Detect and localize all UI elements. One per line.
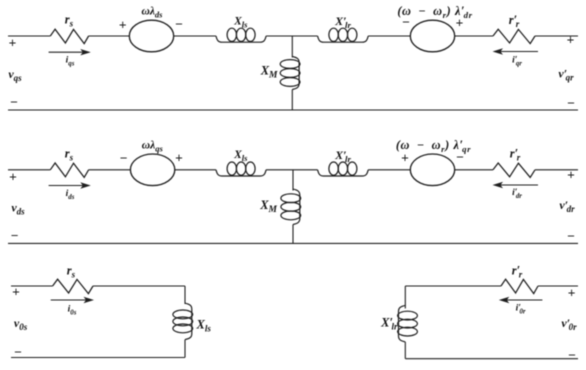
wire, right side lower (zero-seq stator) bbox=[184, 340, 186, 358]
svg-text:i′dr: i′dr bbox=[512, 188, 522, 200]
svg-text:+: + bbox=[119, 18, 127, 33]
wire, d-axis bottom rail bbox=[8, 242, 578, 244]
svg-text:X′lr: X′lr bbox=[380, 316, 398, 332]
wire, magnetizing branch lower (q-axis) bbox=[291, 90, 293, 111]
svg-text:iqs: iqs bbox=[66, 56, 75, 68]
wire, r'_r to q-axis rotor terminal bbox=[535, 35, 578, 37]
current arrow i_0s bbox=[51, 297, 94, 303]
wire, left side lower (zero-seq rotor) bbox=[404, 342, 406, 359]
wire, source to X_ls bbox=[174, 35, 216, 37]
svg-text:(ω − ωr) λ′dr: (ω − ωr) λ′dr bbox=[397, 4, 472, 20]
svg-text:+: + bbox=[175, 151, 183, 166]
inductor X_M (d-axis magnetizing) bbox=[281, 189, 301, 224]
current arrow i'_qr bbox=[493, 48, 539, 54]
svg-text:+: + bbox=[9, 36, 17, 51]
inductor X'_lr (q-axis) bbox=[318, 28, 369, 42]
resistor r'_r (d-axis rotor) bbox=[493, 163, 535, 177]
svg-text:vds: vds bbox=[11, 201, 25, 217]
svg-text:r′r: r′r bbox=[512, 264, 523, 280]
svg-text:v0s: v0s bbox=[14, 316, 28, 332]
svg-text:+: + bbox=[12, 285, 20, 300]
wire, left side upper (zero-seq rotor) bbox=[404, 286, 406, 309]
svg-text:XM: XM bbox=[260, 64, 278, 81]
inductor X_ls (d-axis) bbox=[216, 162, 266, 176]
svg-text:rs: rs bbox=[65, 147, 74, 163]
wire, r'_r to 0r terminal bbox=[538, 285, 578, 287]
wire, X'_lr to rotor speed-voltage source bbox=[368, 35, 410, 37]
wire, bottom rail (zero-seq rotor) bbox=[405, 358, 578, 360]
dependent source (w-wr)L'dr (q-axis) bbox=[410, 20, 454, 52]
svg-text:+: + bbox=[568, 286, 576, 301]
wire, X_ls to X_M node (d-axis) bbox=[266, 169, 318, 171]
svg-text:ωλqs: ωλqs bbox=[142, 140, 164, 154]
resistor r_s (zero-seq stator) bbox=[53, 279, 93, 293]
svg-text:i′qr: i′qr bbox=[512, 56, 522, 68]
wire, r'_r to d-axis rotor terminal bbox=[535, 169, 578, 171]
svg-text:rs: rs bbox=[65, 13, 74, 29]
wire, X'_lr to rotor source (d-axis) bbox=[368, 169, 410, 171]
svg-text:−: − bbox=[10, 95, 18, 110]
dependent source wLds (q-axis) bbox=[129, 20, 173, 52]
svg-text:r′r: r′r bbox=[510, 147, 521, 163]
wire, 0s terminal to r_s bbox=[11, 285, 53, 287]
resistor r'_r (q-axis rotor) bbox=[493, 29, 535, 43]
wire, X'_lr to r'_r (zero-seq rotor) bbox=[405, 285, 501, 287]
svg-text:X′lr: X′lr bbox=[334, 14, 351, 30]
svg-text:r′r: r′r bbox=[509, 13, 520, 29]
svg-text:−: − bbox=[567, 229, 575, 244]
inductor X_ls (zero-seq) bbox=[173, 303, 193, 339]
wire, right side upper (zero-seq stator) bbox=[184, 286, 186, 304]
svg-text:Xls: Xls bbox=[233, 16, 248, 30]
svg-text:+: + bbox=[567, 33, 575, 48]
wire, magnetizing branch lower (d-axis) bbox=[292, 225, 294, 244]
svg-text:−: − bbox=[568, 348, 576, 363]
wire, r_s to X_ls (zero-seq) bbox=[93, 285, 185, 287]
svg-text:(ω − ωr) λ′qr: (ω − ωr) λ′qr bbox=[396, 138, 471, 154]
svg-text:+: + bbox=[401, 151, 409, 166]
wire, r_s to speed-voltage source (d-axis) bbox=[89, 169, 131, 171]
wire, magnetizing branch upper (q-axis) bbox=[291, 36, 293, 58]
wire, source to X_ls (d-axis) bbox=[175, 169, 216, 171]
svg-text:−: − bbox=[567, 96, 575, 111]
svg-text:i′0r: i′0r bbox=[516, 304, 526, 316]
svg-text:ids: ids bbox=[66, 189, 75, 201]
svg-text:X′lr: X′lr bbox=[334, 148, 351, 164]
wire, X_ls to X_M node bbox=[266, 35, 318, 37]
current arrow i_qs bbox=[49, 49, 91, 55]
svg-text:−: − bbox=[14, 345, 22, 360]
svg-text:−: − bbox=[11, 228, 19, 243]
wire, source to r'_r (d-axis) bbox=[455, 169, 493, 171]
svg-text:+: + bbox=[567, 168, 575, 183]
resistor r_s (q-axis stator) bbox=[50, 29, 88, 43]
svg-text:ωλds: ωλds bbox=[142, 6, 164, 20]
wire, d-axis stator terminal to r_s bbox=[8, 169, 50, 171]
current arrow i_ds bbox=[49, 182, 91, 188]
svg-text:rs: rs bbox=[67, 264, 76, 280]
svg-text:−: − bbox=[175, 17, 183, 32]
dependent source wLqs (d-axis) bbox=[130, 154, 174, 186]
resistor r'_r (zero-seq rotor) bbox=[501, 279, 538, 293]
svg-text:XM: XM bbox=[259, 198, 277, 215]
inductor X_M (q-axis magnetizing) bbox=[280, 57, 300, 90]
wire, r_s to speed-voltage source bbox=[89, 35, 130, 37]
wire, magnetizing branch upper (d-axis) bbox=[292, 170, 294, 191]
svg-text:i0s: i0s bbox=[68, 305, 77, 317]
wire, q-axis stator terminal to r_s bbox=[8, 35, 50, 37]
svg-text:v′dr: v′dr bbox=[559, 198, 575, 214]
svg-text:vqs: vqs bbox=[8, 67, 22, 83]
dependent source (w-wr)L'qr (d-axis) bbox=[410, 154, 454, 186]
svg-text:Xls: Xls bbox=[233, 149, 248, 163]
svg-text:+: + bbox=[9, 170, 17, 185]
inductor X'_lr (d-axis) bbox=[318, 162, 369, 176]
wire, bottom rail (zero-seq stator) bbox=[11, 357, 185, 359]
current arrow i'_dr bbox=[493, 182, 539, 188]
inductor X'_lr (zero-seq) bbox=[398, 305, 418, 342]
wire, source to r'_r bbox=[455, 35, 493, 37]
svg-text:v′0r: v′0r bbox=[561, 316, 577, 332]
resistor r_s (d-axis) bbox=[50, 163, 88, 177]
wire, q-axis bottom rail bbox=[8, 109, 578, 111]
svg-text:−: − bbox=[120, 151, 128, 166]
svg-text:Xls: Xls bbox=[196, 318, 212, 334]
inductor X_ls (q-axis) bbox=[216, 28, 266, 42]
svg-text:v′qr: v′qr bbox=[558, 67, 574, 83]
current arrow i'_0r bbox=[499, 297, 543, 303]
